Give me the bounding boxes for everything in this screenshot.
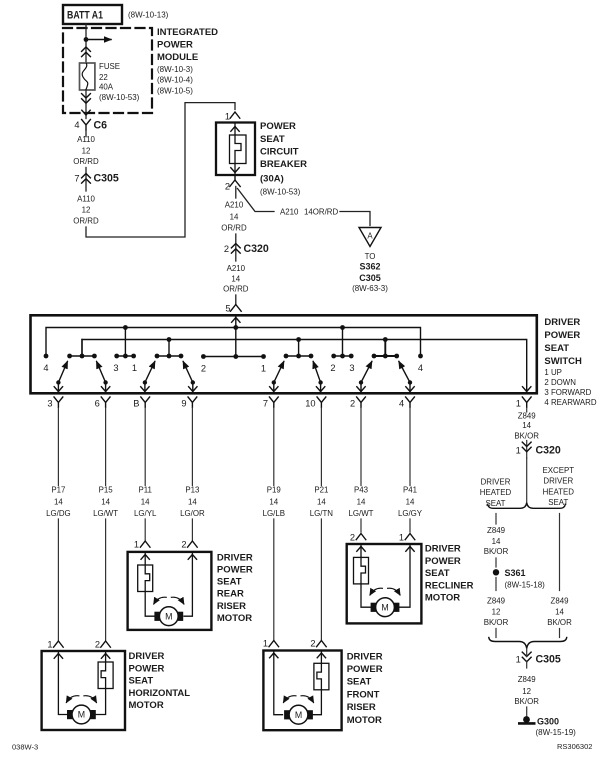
wire from switch pin at x=105.6 xyxy=(105,408,107,640)
driver power seat switch box xyxy=(31,315,537,393)
wire from switch pin at x=192.4 xyxy=(191,408,193,540)
svg-text:HEATED: HEATED xyxy=(480,488,512,497)
svg-text:4: 4 xyxy=(399,399,404,409)
svg-text:A110: A110 xyxy=(77,135,95,144)
driver power seat recliner motor box xyxy=(347,544,422,623)
svg-text:14: 14 xyxy=(492,537,501,546)
svg-text:P21: P21 xyxy=(314,485,328,494)
svg-text:1: 1 xyxy=(399,533,404,543)
svg-text:14: 14 xyxy=(522,421,531,430)
off-page destination label TO S362 C305 xyxy=(352,252,388,293)
svg-text:(8W-15-19): (8W-15-19) xyxy=(536,728,577,737)
svg-text:Z849: Z849 xyxy=(518,411,537,420)
svg-text:FRONT: FRONT xyxy=(347,689,380,700)
wire fuse to C6 xyxy=(85,90,87,119)
svg-text:22: 22 xyxy=(99,73,108,82)
integrated power module dashed box xyxy=(63,28,152,113)
junction bus1/pin5 xyxy=(233,325,238,330)
svg-text:1: 1 xyxy=(134,540,139,550)
svg-text:P41: P41 xyxy=(403,485,417,494)
svg-text:14: 14 xyxy=(101,497,110,506)
svg-text:(8W-15-18): (8W-15-18) xyxy=(505,581,546,590)
wire from switch pin at x=321.4 xyxy=(320,408,322,640)
wire to merge xyxy=(559,629,561,638)
svg-text:7: 7 xyxy=(74,174,79,184)
svg-text:2: 2 xyxy=(350,399,355,409)
svg-text:LG/DG: LG/DG xyxy=(46,509,71,518)
svg-text:POWER: POWER xyxy=(425,556,461,567)
merge brace xyxy=(489,638,567,649)
svg-text:038W-3: 038W-3 xyxy=(12,743,38,752)
circuit breaker pin 1 xyxy=(225,112,240,122)
svg-text:14OR/RD: 14OR/RD xyxy=(304,208,339,217)
svg-text:4: 4 xyxy=(418,363,423,373)
fuse label xyxy=(99,62,140,102)
wire to ground xyxy=(526,707,528,716)
driver power seat rear riser motor box xyxy=(128,552,212,630)
svg-text:RS306302: RS306302 xyxy=(557,742,592,751)
svg-text:12: 12 xyxy=(82,147,91,156)
svg-text:C305: C305 xyxy=(536,654,561,666)
svg-text:BK/OR: BK/OR xyxy=(484,547,509,556)
svg-text:P15: P15 xyxy=(99,485,114,494)
svg-text:LG/TN: LG/TN xyxy=(310,509,334,518)
switch pin 4 xyxy=(399,397,414,409)
terminal 4 left xyxy=(43,354,48,373)
svg-text:14: 14 xyxy=(230,213,239,222)
wire to merge xyxy=(495,629,497,638)
svg-text:DRIVER: DRIVER xyxy=(544,317,580,328)
svg-text:TO: TO xyxy=(365,252,376,261)
svg-text:A210: A210 xyxy=(225,201,244,210)
svg-text:P17: P17 xyxy=(51,485,65,494)
svg-text:14: 14 xyxy=(317,497,326,506)
branch label DRIVER HEATED SEAT xyxy=(480,477,512,508)
wire below splice xyxy=(495,578,497,591)
wire from switch pin at x=145.2 xyxy=(144,408,146,540)
svg-text:DRIVER: DRIVER xyxy=(425,544,461,555)
svg-text:A210: A210 xyxy=(227,264,246,273)
svg-text:P43: P43 xyxy=(354,485,369,494)
svg-text:40A: 40A xyxy=(99,83,114,92)
svg-text:DRIVER: DRIVER xyxy=(347,651,383,662)
svg-text:1: 1 xyxy=(225,112,230,122)
switch pin B xyxy=(133,397,149,409)
wire battery to fuse xyxy=(85,24,87,63)
switch pin 3 xyxy=(47,397,62,409)
switch pin 1 xyxy=(516,397,531,409)
svg-text:14: 14 xyxy=(269,497,278,506)
breaker internal element xyxy=(230,124,247,175)
svg-text:P19: P19 xyxy=(267,485,282,494)
svg-text:SWITCH: SWITCH xyxy=(544,356,582,367)
wire from switch pin at x=410 xyxy=(409,408,411,532)
svg-text:OR/RD: OR/RD xyxy=(73,157,99,166)
svg-text:DRIVER: DRIVER xyxy=(543,477,573,486)
svg-text:SEAT: SEAT xyxy=(260,134,285,145)
svg-text:2 DOWN: 2 DOWN xyxy=(544,378,576,387)
ground G300 xyxy=(519,716,576,737)
pin 5 internal wire xyxy=(235,317,237,357)
terminal group 2-1 (wide, pin5 common) xyxy=(201,354,266,373)
driver power seat front riser motor box xyxy=(263,651,341,731)
svg-text:CIRCUIT: CIRCUIT xyxy=(260,147,299,158)
except driver heated seat branch wire xyxy=(559,514,561,591)
connector C305 pin 7 xyxy=(74,173,119,185)
wire below C305 xyxy=(526,649,528,669)
svg-text:BK/OR: BK/OR xyxy=(484,618,509,627)
svg-text:14: 14 xyxy=(141,497,150,506)
switch internal feed bus (bus1) xyxy=(46,328,421,357)
svg-text:RISER: RISER xyxy=(217,601,246,612)
svg-text:OR/RD: OR/RD xyxy=(73,217,99,226)
svg-text:DRIVER: DRIVER xyxy=(481,477,511,486)
wire from switch pin at x=361 xyxy=(360,408,362,532)
front riser motor label xyxy=(347,651,383,726)
wiper C (pins 7,10) xyxy=(270,337,325,392)
wiper B (pins B,9) xyxy=(141,337,197,392)
horizontal motor label xyxy=(129,651,191,711)
svg-text:BK/OR: BK/OR xyxy=(547,618,572,627)
svg-text:2: 2 xyxy=(95,640,100,650)
wire above C320 xyxy=(526,441,528,459)
svg-text:HEATED: HEATED xyxy=(543,487,575,496)
wire label P13 14 LG/OR xyxy=(180,485,205,518)
svg-text:MOTOR: MOTOR xyxy=(217,613,252,624)
wire label Z849 14 BK/OR xyxy=(547,596,572,627)
svg-text:RECLINER: RECLINER xyxy=(425,580,474,591)
svg-text:1 UP: 1 UP xyxy=(544,368,562,377)
splice S361 xyxy=(493,568,545,590)
rear riser motor internals xyxy=(138,553,197,626)
wire from switch pin at x=58.4 xyxy=(57,408,59,640)
svg-text:MOTOR: MOTOR xyxy=(425,593,460,604)
battery feed BATT A1 box xyxy=(63,5,122,24)
wire from switch pin at x=273.8 xyxy=(273,408,275,640)
wire label Z849 14 BK/OR xyxy=(514,411,539,440)
wire label P11 14 LG/YL xyxy=(134,485,157,518)
entry arrow pin 5 xyxy=(232,318,240,323)
svg-text:(8W-10-53): (8W-10-53) xyxy=(260,188,301,197)
svg-text:2: 2 xyxy=(330,363,335,373)
connector double chevron above fuse xyxy=(82,47,91,57)
wire label A210 14 OR/RD xyxy=(221,201,247,233)
svg-text:14: 14 xyxy=(406,497,415,506)
svg-text:RISER: RISER xyxy=(347,702,376,713)
svg-text:BK/OR: BK/OR xyxy=(514,431,539,440)
svg-text:MOTOR: MOTOR xyxy=(129,700,164,711)
svg-text:POWER: POWER xyxy=(217,565,253,576)
wire label P43 14 LG/WT xyxy=(349,485,374,518)
svg-text:SEAT: SEAT xyxy=(347,677,372,688)
svg-text:3: 3 xyxy=(349,363,354,373)
svg-text:3 FORWARD: 3 FORWARD xyxy=(544,388,591,397)
svg-text:2: 2 xyxy=(181,540,186,550)
svg-text:14: 14 xyxy=(231,275,240,284)
terminal group 3-1 xyxy=(113,325,137,373)
connector C320 pin 2 xyxy=(224,243,269,255)
svg-text:POWER: POWER xyxy=(157,40,193,51)
terminal group 2-3 xyxy=(330,325,354,373)
horizontal motor pin 1 xyxy=(47,640,63,650)
wiper D (pins 2,4) xyxy=(357,337,414,392)
svg-text:DRIVER: DRIVER xyxy=(217,552,253,563)
connector C6 pin 4 xyxy=(74,120,107,132)
svg-text:4: 4 xyxy=(74,120,79,130)
svg-text:5: 5 xyxy=(225,304,230,314)
exit arrow at IPM edge xyxy=(82,110,90,115)
recliner motor pin 2 xyxy=(350,533,366,543)
svg-text:1: 1 xyxy=(263,639,268,649)
svg-text:S362: S362 xyxy=(359,262,380,272)
horizontal motor internals xyxy=(54,652,113,724)
svg-text:14: 14 xyxy=(555,608,564,617)
svg-text:EXCEPT: EXCEPT xyxy=(543,466,575,475)
wire stub below C6 xyxy=(85,130,87,137)
wire below pin 2 xyxy=(235,187,237,199)
switch pin 9 xyxy=(181,397,196,409)
svg-text:14: 14 xyxy=(188,497,197,506)
svg-text:6: 6 xyxy=(95,399,100,409)
svg-text:OR/RD: OR/RD xyxy=(221,224,247,233)
svg-text:1: 1 xyxy=(516,446,521,456)
svg-text:C305: C305 xyxy=(359,273,381,283)
svg-text:2: 2 xyxy=(201,364,206,374)
svg-text:SEAT: SEAT xyxy=(425,568,450,579)
svg-text:BK/OR: BK/OR xyxy=(514,697,539,706)
svg-text:INTEGRATED: INTEGRATED xyxy=(157,27,218,38)
svg-text:C305: C305 xyxy=(94,173,119,185)
ground wire below switch pin 1 xyxy=(526,408,528,412)
svg-text:S361: S361 xyxy=(505,568,526,578)
svg-text:B: B xyxy=(133,399,139,409)
svg-text:(8W-10-5): (8W-10-5) xyxy=(157,86,193,95)
svg-text:7: 7 xyxy=(263,399,268,409)
svg-text:9: 9 xyxy=(181,399,186,409)
rear riser motor pin 2 xyxy=(181,540,197,550)
driver power seat horizontal motor box xyxy=(42,651,125,730)
pin 1 exit arrow xyxy=(523,387,531,392)
svg-text:G300: G300 xyxy=(537,717,559,727)
switch pin 2 xyxy=(350,397,365,409)
svg-text:Z849: Z849 xyxy=(487,596,506,605)
svg-text:HORIZONTAL: HORIZONTAL xyxy=(129,688,191,699)
svg-text:(8W-10-3): (8W-10-3) xyxy=(157,65,193,74)
wire C320 to split xyxy=(526,458,528,502)
front riser motor internals xyxy=(270,652,329,725)
svg-text:(8W-10-13): (8W-10-13) xyxy=(128,11,169,20)
switch pin 10 xyxy=(305,397,326,409)
switch pin 5 xyxy=(225,304,241,314)
svg-text:3: 3 xyxy=(113,363,118,373)
driver heated seat branch wire xyxy=(495,514,497,525)
svg-text:(30A): (30A) xyxy=(260,174,284,185)
svg-text:POWER: POWER xyxy=(260,121,296,132)
wire into switch pin 5 xyxy=(235,295,237,304)
svg-text:C320: C320 xyxy=(244,243,269,255)
wire label P21 14 LG/TN xyxy=(310,485,334,518)
svg-text:C6: C6 xyxy=(94,120,108,132)
svg-text:4: 4 xyxy=(43,363,48,373)
circuit breaker pin 2 xyxy=(225,176,240,192)
svg-text:Z849: Z849 xyxy=(518,675,537,684)
front riser motor pin 2 xyxy=(310,639,326,649)
connector C305 pin 1 xyxy=(516,652,561,665)
svg-text:P11: P11 xyxy=(138,485,151,494)
svg-text:1: 1 xyxy=(47,640,52,650)
svg-text:1: 1 xyxy=(132,363,137,373)
recliner motor label xyxy=(425,544,474,604)
svg-text:DRIVER: DRIVER xyxy=(129,651,165,662)
connector double chevron below fuse xyxy=(82,94,91,104)
wire stub above C305 xyxy=(85,168,87,192)
svg-text:12: 12 xyxy=(492,608,501,617)
terminal 4 right xyxy=(418,354,423,373)
horizontal motor pin 2 xyxy=(95,640,111,650)
svg-text:4 REARWARD: 4 REARWARD xyxy=(544,398,596,407)
wire label Z849 12 BK/OR xyxy=(514,675,539,706)
wire label A210 14 OR/RD xyxy=(223,264,249,294)
svg-text:LG/WT: LG/WT xyxy=(349,509,374,518)
power seat circuit breaker box xyxy=(216,123,255,176)
wire label P19 14 LG/LB xyxy=(263,485,285,518)
front riser motor pin 1 xyxy=(263,639,279,649)
connector C320 pin 1 xyxy=(516,442,561,456)
svg-text:10: 10 xyxy=(305,399,315,409)
svg-text:1: 1 xyxy=(261,364,266,374)
wire label P41 14 LG/GY xyxy=(398,485,423,518)
wire to splice xyxy=(495,558,497,567)
svg-text:REAR: REAR xyxy=(217,589,244,600)
svg-text:A210: A210 xyxy=(280,208,299,217)
svg-text:P13: P13 xyxy=(185,485,200,494)
junction node in IPM xyxy=(84,37,89,42)
wire label P15 14 LG/WT xyxy=(93,485,118,518)
svg-text:12: 12 xyxy=(82,206,91,215)
svg-text:BREAKER: BREAKER xyxy=(260,159,307,170)
svg-text:FUSE: FUSE xyxy=(99,62,120,71)
split brace xyxy=(488,503,566,509)
svg-text:A110: A110 xyxy=(77,195,95,204)
svg-text:(8W-63-3): (8W-63-3) xyxy=(352,284,388,293)
svg-text:(8W-10-53): (8W-10-53) xyxy=(99,93,140,102)
svg-text:14: 14 xyxy=(54,497,63,506)
svg-text:LG/GY: LG/GY xyxy=(398,509,423,518)
svg-text:POWER: POWER xyxy=(544,330,580,341)
svg-text:14: 14 xyxy=(357,497,366,506)
svg-text:A: A xyxy=(367,232,373,241)
branch label EXCEPT DRIVER HEATED SEAT xyxy=(543,466,575,507)
svg-text:Z849: Z849 xyxy=(487,526,506,535)
svg-text:BATT A1: BATT A1 xyxy=(67,10,103,22)
svg-text:SEAT: SEAT xyxy=(129,676,154,687)
svg-text:Z849: Z849 xyxy=(551,596,570,605)
svg-text:1: 1 xyxy=(516,655,521,665)
wire above C320 xyxy=(235,234,237,261)
power seat circuit breaker label xyxy=(260,121,307,197)
wiper A (pins 3,6) xyxy=(54,340,110,393)
branch wire to A splice xyxy=(238,189,371,226)
recliner motor pin 1 xyxy=(399,533,415,543)
integrated power module label xyxy=(157,27,218,95)
switch pin 7 xyxy=(263,397,278,409)
fuse 22 40A xyxy=(80,63,95,90)
svg-text:C320: C320 xyxy=(536,445,561,457)
svg-text:LG/LB: LG/LB xyxy=(263,509,285,518)
svg-text:2: 2 xyxy=(310,639,315,649)
feed arrow to other circuits xyxy=(86,39,111,41)
svg-text:LG/WT: LG/WT xyxy=(93,509,118,518)
driver power seat switch label xyxy=(544,317,596,407)
svg-text:3: 3 xyxy=(47,399,52,409)
switch pin 6 xyxy=(95,397,110,409)
svg-text:SEAT: SEAT xyxy=(544,343,569,354)
branch wire label A210 14OR/RD xyxy=(280,208,339,217)
svg-text:POWER: POWER xyxy=(347,664,383,675)
switch internal return bus (bus2) xyxy=(82,340,527,391)
wire label Z849 14 BK/OR xyxy=(484,526,509,556)
svg-text:OR/RD: OR/RD xyxy=(223,285,249,294)
wire label P17 14 LG/DG xyxy=(46,485,71,518)
wire label A110 12 OR/RD xyxy=(73,135,99,166)
rear riser motor pin 1 xyxy=(134,540,150,550)
wire label A110 12 OR/RD xyxy=(73,195,99,226)
svg-text:LG/YL: LG/YL xyxy=(134,509,157,518)
wire to circuit breaker pin 1 xyxy=(86,103,235,237)
svg-text:1: 1 xyxy=(516,399,521,409)
svg-text:12: 12 xyxy=(522,687,531,696)
svg-text:2: 2 xyxy=(350,533,355,543)
svg-text:POWER: POWER xyxy=(129,663,165,674)
off-page triangle A xyxy=(359,228,381,247)
recliner motor internals xyxy=(354,545,415,617)
svg-text:MODULE: MODULE xyxy=(157,52,198,63)
svg-text:(8W-10-4): (8W-10-4) xyxy=(157,76,193,85)
svg-text:MOTOR: MOTOR xyxy=(347,715,382,726)
rear riser motor label xyxy=(217,552,253,624)
svg-text:SEAT: SEAT xyxy=(217,577,242,588)
svg-text:2: 2 xyxy=(224,244,229,254)
svg-text:LG/OR: LG/OR xyxy=(180,509,205,518)
wire label Z849 12 BK/OR xyxy=(484,596,509,627)
